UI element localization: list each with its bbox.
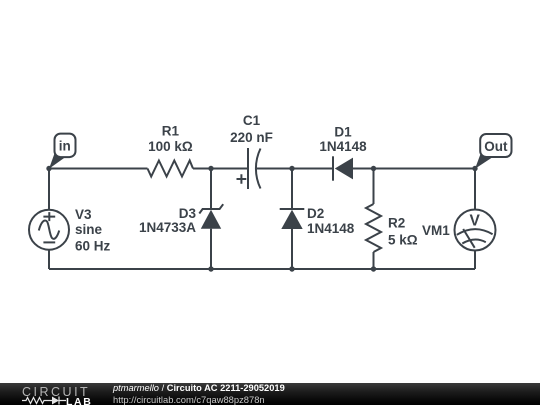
svg-text:D1: D1 (334, 124, 352, 139)
diode D1 triangle (335, 158, 353, 180)
voltage source V3 circle (29, 210, 69, 250)
svg-text:in: in (59, 139, 71, 154)
svg-text:V3: V3 (75, 207, 92, 222)
diode D2 triangle (281, 210, 302, 229)
svg-text:C1: C1 (243, 113, 261, 128)
label V3 value (75, 207, 111, 253)
CircuitLab logo LAB (66, 396, 92, 405)
wire bottom rail (49, 268, 475, 270)
wire R2 to rail (373, 252, 375, 269)
svg-text:1N4733A: 1N4733A (139, 220, 196, 235)
V3 sine symbol (39, 220, 59, 238)
svg-text:220 nF: 220 nF (230, 130, 273, 145)
resistor R2 (366, 204, 381, 252)
svg-text:VM1: VM1 (422, 223, 450, 238)
label D1 value (319, 124, 367, 154)
svg-text:V: V (470, 213, 481, 230)
capacitor C1 plus sign (237, 174, 247, 184)
svg-text:1N4148: 1N4148 (307, 221, 355, 236)
node D1/R2 junction dot (371, 166, 376, 171)
svg-text:1N4148: 1N4148 (319, 139, 367, 154)
zener D3 cathode bar with hooks (199, 204, 223, 213)
CircuitLab logo text (22, 385, 90, 399)
svg-text:R1: R1 (162, 123, 180, 138)
wire V3 bottom to rail (48, 250, 50, 269)
CircuitLab logo symbol (22, 396, 72, 405)
V3 minus sign (43, 241, 55, 243)
wire C1 to D1 (257, 168, 333, 170)
svg-text:D3: D3 (179, 206, 197, 221)
svg-text:100 kΩ: 100 kΩ (148, 139, 193, 154)
VM1 needle (463, 229, 475, 248)
wire node to D2 (291, 169, 293, 210)
svg-text:R2: R2 (388, 216, 405, 231)
wire node to D3 (210, 169, 212, 210)
VM1 meter scale arcs (457, 229, 493, 243)
diode D2 cathode bar (280, 208, 305, 210)
node label in (49, 134, 76, 169)
node label Out (475, 134, 512, 169)
bottom rail D2 junction dot (289, 266, 294, 271)
svg-text:Out: Out (484, 139, 508, 154)
diode D1 cathode bar (332, 156, 334, 180)
svg-text:D2: D2 (307, 206, 324, 221)
svg-text:60 Hz: 60 Hz (75, 238, 111, 253)
wire node to R2 (373, 169, 375, 205)
wire Out node down to VM1 (474, 169, 476, 210)
svg-text:5 kΩ: 5 kΩ (388, 233, 418, 248)
label R2 value (388, 216, 418, 248)
wire in node down to V3 (48, 169, 50, 210)
label R1 value (148, 123, 193, 154)
wire R1 to C1 (193, 168, 248, 170)
footer url (113, 394, 265, 405)
node in junction dot (46, 166, 51, 171)
V3 plus sign (43, 212, 55, 221)
footer bar (0, 383, 540, 405)
wire top rail left: in node to R1 (49, 168, 148, 170)
svg-text:sine: sine (75, 222, 103, 237)
footer title (113, 383, 285, 393)
voltmeter VM1 circle (455, 210, 496, 251)
capacitor C1 right curved plate (256, 149, 261, 189)
bottom rail R2 junction dot (371, 266, 376, 271)
node C1/D2 junction dot (289, 166, 294, 171)
resistor R1 (148, 161, 194, 177)
label C1 value (230, 113, 273, 145)
wire VM1 bottom to rail (474, 251, 476, 270)
zener D3 triangle (201, 210, 221, 229)
capacitor C1 left plate (247, 148, 249, 189)
label D2 value (307, 206, 355, 236)
bottom rail D3 junction dot (208, 266, 213, 271)
wire D3 anode to rail (210, 229, 212, 269)
label D3 value (139, 206, 197, 235)
node Out junction dot (472, 166, 477, 171)
wire D1 to Out node (353, 168, 475, 170)
wire D2 anode to rail (291, 229, 293, 269)
node R1/D3 junction dot (208, 166, 213, 171)
